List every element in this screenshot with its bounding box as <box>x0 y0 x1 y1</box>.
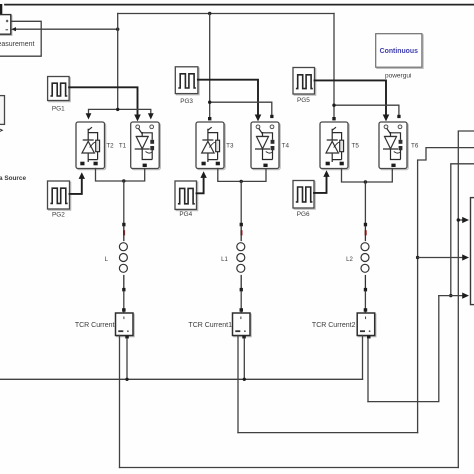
current measurement TCR Current2 <box>357 313 376 339</box>
wire: PG1 to T1 gate <box>69 87 137 115</box>
arrowhead into T2 top <box>86 113 92 119</box>
svg-text:T3: T3 <box>226 143 234 150</box>
thyristor T2 <box>76 122 106 170</box>
wire: phase drop C <box>333 14 335 106</box>
pulse generator PG6 <box>293 181 315 210</box>
wire: branch B to inductor <box>240 181 242 223</box>
powergui block <box>376 34 423 69</box>
pulse generator PG3 <box>175 67 199 95</box>
port: T4 top-right <box>270 115 273 118</box>
wire: right edge feed y131 <box>458 131 474 468</box>
svg-text:T6: T6 <box>411 143 419 150</box>
thyristor T1 <box>131 122 161 170</box>
wire: TCR Current left output to bottom rail <box>119 336 121 468</box>
wire: PG2 to T2 gate <box>70 179 82 194</box>
port above inductor L2 <box>364 223 367 227</box>
svg-text:a Source: a Source <box>0 175 26 182</box>
port: TCR Current2 input <box>364 308 368 312</box>
junction: branch C bottom <box>364 180 367 183</box>
junction: branch A bottom <box>122 179 125 182</box>
svg-text:T1: T1 <box>119 143 127 150</box>
junction on bus y379 <box>243 378 246 381</box>
current measurement TCR Current1 <box>233 313 252 339</box>
svg-text:TCR Current: TCR Current <box>75 322 115 329</box>
scope block (cut off at right) <box>471 198 474 305</box>
svg-text:L1: L1 <box>221 257 228 263</box>
wire: scope input 2 <box>418 257 465 259</box>
port above inductor L <box>122 223 125 227</box>
pulse generator PG2 <box>48 181 71 210</box>
port below inductor L1 <box>240 288 243 292</box>
wire: phase drop B <box>209 14 211 103</box>
arrowhead into T1 top-right <box>148 113 154 119</box>
wire: branch B cathode rail <box>218 169 266 182</box>
port below inductor L2 <box>364 288 367 292</box>
wire: right edge feed y147 <box>418 148 474 433</box>
junction: branch C top <box>332 104 335 107</box>
junction: phase A tap <box>116 28 119 31</box>
pulse generator PG1 <box>48 77 71 102</box>
wire: measurement input A <box>0 21 41 56</box>
port: T3 top <box>208 117 211 120</box>
junction: phase drop B <box>208 12 211 15</box>
inductor L2 <box>361 226 369 288</box>
wire: branch C anode rail <box>334 105 399 117</box>
wire: measurement input B <box>15 28 118 30</box>
svg-text:TCR Current2: TCR Current2 <box>312 322 356 329</box>
port below inductor L <box>122 288 125 292</box>
cut-off block stub (top-left edge) <box>0 4 2 15</box>
junction: scope input 2 tap <box>416 256 419 259</box>
wire: scope input 1 <box>458 219 464 221</box>
pulse generator PG4 <box>175 181 198 211</box>
port above inductor L1 <box>240 223 243 227</box>
wire: TCR Current1 left run y432 <box>238 432 418 434</box>
svg-text:PG1: PG1 <box>52 106 65 113</box>
junction: branch B bottom <box>240 180 243 183</box>
wire: TCR Current right output <box>126 339 128 380</box>
wire: inductor L2 to TCR Current2 <box>364 291 366 313</box>
svg-text:PG5: PG5 <box>297 97 310 104</box>
svg-text:PG2: PG2 <box>52 211 65 218</box>
wire: measurement bus y379 <box>0 378 363 380</box>
three-phase source block (cut off at left) <box>0 96 5 132</box>
svg-text:T5: T5 <box>352 143 360 150</box>
svg-text:PG4: PG4 <box>179 211 192 218</box>
inductor L1 <box>237 226 245 288</box>
wire: branch C cathode rail <box>342 169 393 183</box>
wire: PG3 to T4 gate <box>198 80 258 115</box>
svg-text:Continuous: Continuous <box>380 48 418 55</box>
current flow mark (red) <box>240 230 242 235</box>
thyristor T6 <box>379 122 408 170</box>
svg-text:easurement: easurement <box>0 41 35 48</box>
wire: right edge feed y164 <box>451 164 474 296</box>
svg-text:PG3: PG3 <box>180 98 193 105</box>
svg-text:T4: T4 <box>282 143 290 150</box>
wire: inductor L1 to TCR Current1 <box>240 291 242 313</box>
wire: branch A anode rail <box>89 109 151 113</box>
junction: branch B top <box>208 101 211 104</box>
wire: branch A to inductor <box>123 181 125 223</box>
junction on bus y379 <box>125 378 128 381</box>
wire: bottom rail y467 <box>120 467 459 469</box>
svg-text:T2: T2 <box>106 143 114 150</box>
junction: branch A top <box>116 108 119 111</box>
svg-text:powergui: powergui <box>385 72 411 79</box>
junction on scope input 3 <box>449 294 452 297</box>
wire: PG5 to T6 gate <box>315 80 387 114</box>
current flow mark (red) <box>123 230 125 235</box>
wire: TCR Current2 right output <box>367 339 369 402</box>
thyristor T5 <box>320 122 349 170</box>
current measurement TCR Current <box>116 313 135 339</box>
wire: PG4 to T3 gate <box>197 178 204 194</box>
svg-text:L2: L2 <box>346 257 353 263</box>
wire: TCR Current2 right to scope riser <box>368 296 439 402</box>
wire: branch B anode rail <box>210 102 272 117</box>
wire: TCR Current1 right output <box>243 339 245 380</box>
wire: inductor L to TCR Current <box>123 291 125 313</box>
wire: scope input 3 <box>439 295 465 297</box>
port: TCR Current1 input <box>240 308 244 312</box>
wire: TCR Current2 left output <box>362 336 364 380</box>
svg-text:L: L <box>105 257 109 263</box>
thyristor T3 <box>196 122 225 170</box>
svg-text:TCR Current1: TCR Current1 <box>188 322 232 329</box>
wire: branch A cathode rail <box>96 169 145 182</box>
arrowhead into measurement block <box>11 27 16 31</box>
wire: PG6 to T5 gate <box>314 177 327 193</box>
wire: TCR Current1 left output <box>237 336 239 433</box>
wire: top bus <box>5 4 474 6</box>
wire: phase bus <box>118 13 334 15</box>
current flow mark (red) <box>365 230 367 235</box>
port: T5 top <box>332 117 335 120</box>
inductor L <box>119 226 127 288</box>
port: TCR Current input <box>122 308 126 312</box>
svg-text:PG6: PG6 <box>297 211 310 218</box>
voltage measurement block U1 <box>0 15 12 36</box>
wire: phase drop A <box>117 14 119 110</box>
wire: branch C to inductor <box>364 182 366 223</box>
pulse generator PG5 <box>293 68 316 96</box>
thyristor T4 <box>251 122 280 170</box>
port: T6 top-right <box>397 115 400 118</box>
